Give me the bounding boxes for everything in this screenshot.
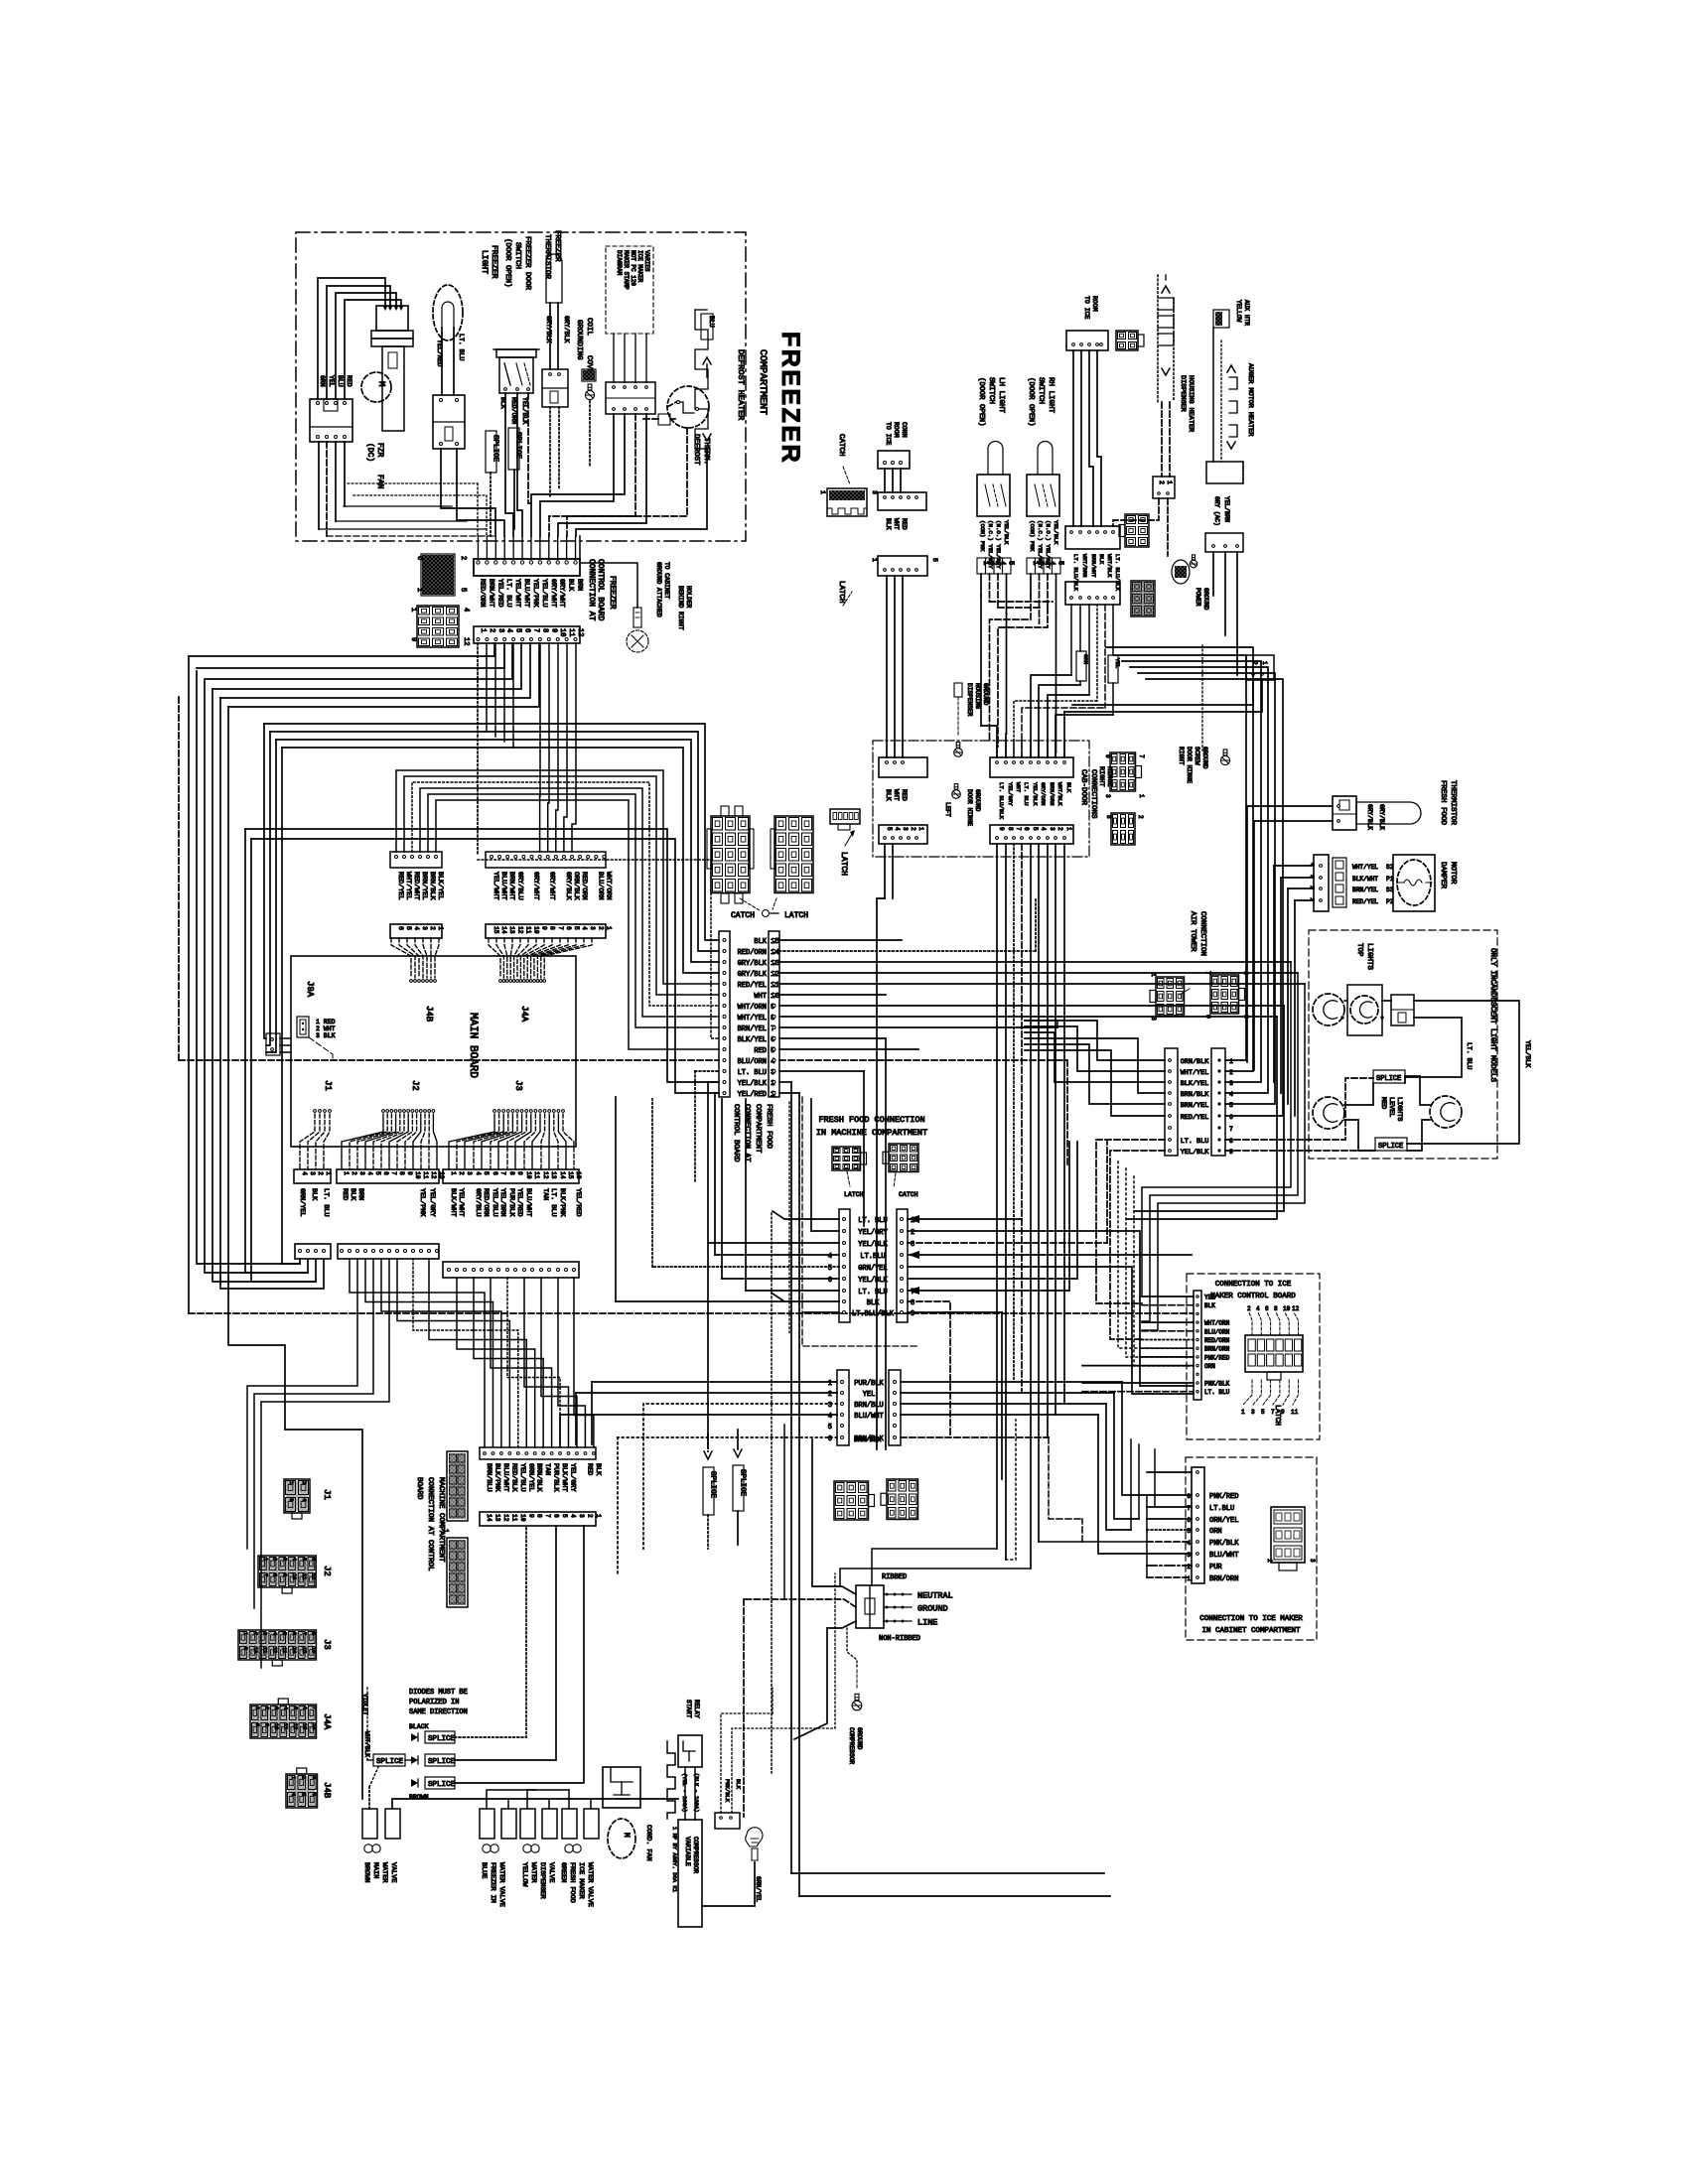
- freezer pins into 15-pin mid bar (staircase): [539, 643, 541, 852]
- svg-text:CONNECTION AT: CONNECTION AT: [743, 1104, 751, 1162]
- svg-text:9: 9: [1104, 754, 1111, 758]
- RH light switch switch box: [1027, 475, 1059, 516]
- ice maker control strip: [1194, 1291, 1201, 1400]
- svg-text:5: 5: [374, 1171, 381, 1175]
- hatched connector column 1: [447, 1451, 468, 1521]
- svg-text:2: 2: [252, 1632, 258, 1635]
- svg-text:J3: J3: [322, 1639, 332, 1650]
- svg-text:9: 9: [1229, 1149, 1233, 1156]
- svg-text:13: 13: [508, 926, 515, 934]
- freezer fan (DC) assembly: [376, 306, 408, 331]
- left bus wires from freezer connector (6): [189, 643, 494, 656]
- svg-text:8: 8: [1274, 1305, 1278, 1312]
- svg-text:GRY/WHT: GRY/WHT: [549, 579, 557, 608]
- svg-text:TOP: TOP: [1355, 943, 1363, 957]
- svg-text:5: 5: [514, 628, 522, 632]
- svg-text:3: 3: [578, 1514, 585, 1518]
- svg-text:J4B: J4B: [322, 1782, 332, 1799]
- svg-text:12: 12: [1292, 1305, 1300, 1312]
- svg-text:11: 11: [422, 1171, 429, 1179]
- central connector right wires: [908, 1218, 1022, 1220]
- svg-text:3: 3: [262, 1632, 268, 1635]
- svg-text:6: 6: [565, 926, 572, 930]
- freezer compartment dashed enclosure: [296, 232, 746, 541]
- svg-text:J1: J1: [322, 1489, 332, 1500]
- svg-text:3: 3: [273, 1706, 279, 1709]
- top light lamp 2 in box: [1347, 985, 1382, 1035]
- svg-text:RED/YEL: RED/YEL: [1352, 898, 1378, 905]
- defrost therm wire to bar: [567, 428, 687, 536]
- svg-text:11: 11: [567, 628, 575, 636]
- svg-text:YEL/BLK: YEL/BLK: [858, 1277, 888, 1285]
- svg-text:10: 10: [525, 1171, 532, 1179]
- svg-text:GRY/BLK: GRY/BLK: [738, 971, 768, 979]
- svg-text:LT.BLU: LT.BLU: [1209, 1505, 1234, 1513]
- svg-text:BRN/BLK: BRN/BLK: [428, 872, 436, 900]
- lower central left wires: [592, 1381, 837, 1383]
- 15-pin control board bar: [486, 852, 606, 868]
- svg-text:3: 3: [288, 1498, 295, 1501]
- svg-text:YEL/GRY: YEL/GRY: [1007, 782, 1014, 806]
- svg-text:J4B: J4B: [424, 1006, 434, 1023]
- svg-text:LATCH: LATCH: [1273, 1405, 1281, 1426]
- svg-text:3: 3: [1104, 794, 1111, 798]
- svg-text:DISPENSER: DISPENSER: [538, 1862, 546, 1899]
- svg-text:2: 2: [301, 1481, 308, 1484]
- svg-text:RH LIGHT: RH LIGHT: [1047, 377, 1055, 414]
- svg-text:HOUSING HEATER: HOUSING HEATER: [1187, 375, 1195, 432]
- svg-text:12: 12: [516, 926, 523, 934]
- svg-text:2: 2: [459, 556, 467, 560]
- svg-text:4: 4: [291, 1558, 297, 1561]
- cab door left bottom bar: [879, 825, 927, 844]
- svg-text:WHT: WHT: [1015, 782, 1022, 793]
- svg-text:LT. BLU: LT. BLU: [1181, 1138, 1209, 1146]
- machine compartment bar: [480, 1447, 596, 1459]
- svg-text:NON-RIBBED: NON-RIBBED: [879, 1635, 920, 1643]
- inverter connector stub: [715, 1813, 740, 1829]
- svg-text:5: 5: [483, 1171, 490, 1175]
- svg-text:1: 1: [1229, 1058, 1233, 1065]
- svg-text:9: 9: [1204, 1015, 1211, 1019]
- svg-text:10: 10: [252, 1647, 258, 1653]
- svg-text:MAIN: MAIN: [371, 1862, 379, 1878]
- ice maker control strip feeds: [1142, 1296, 1194, 1297]
- svg-text:7: 7: [301, 1632, 307, 1635]
- svg-text:11: 11: [1291, 1409, 1299, 1416]
- svg-text:BLK: BLK: [885, 789, 892, 801]
- svg-text:BLU/ORN: BLU/ORN: [738, 1058, 767, 1066]
- svg-text:SWITCH: SWITCH: [987, 377, 995, 404]
- auger 3-pin bar: [1205, 533, 1243, 552]
- svg-text:SPLICE: SPLICE: [376, 1758, 404, 1766]
- dispenser lower bar wires down: [1070, 605, 1072, 675]
- 6-pin numbers bar: [390, 924, 442, 938]
- svg-text:DISPENSER: DISPENSER: [1179, 375, 1187, 412]
- svg-text:10: 10: [1283, 1305, 1291, 1312]
- svg-text:THERMISTOR: THERMISTOR: [543, 234, 551, 280]
- hatched connector block 6-2: [421, 554, 455, 596]
- svg-text:BRN/ORN: BRN/ORN: [1049, 782, 1055, 806]
- svg-text:YEL/BLK: YEL/BLK: [1003, 520, 1010, 545]
- svg-text:3: 3: [466, 1171, 473, 1175]
- svg-text:SPLICE: SPLICE: [492, 435, 499, 463]
- svg-text:J1: J1: [323, 1080, 333, 1091]
- svg-text:BLU/WHT: BLU/WHT: [1209, 1552, 1238, 1560]
- freezer thermistor wires down wavy: [549, 407, 551, 496]
- svg-text:4: 4: [462, 608, 470, 612]
- svg-text:BLK/WHT: BLK/WHT: [449, 1188, 457, 1217]
- svg-text:RED/BLK: RED/BLK: [509, 1463, 517, 1492]
- ice maker control board dashed box: [1187, 1274, 1320, 1439]
- right trunk from center connector: [1142, 962, 1291, 1297]
- svg-text:WHT/ORN: WHT/ORN: [738, 1004, 767, 1012]
- svg-text:BRN/BLK: BRN/BLK: [1181, 1091, 1209, 1099]
- fresh food central connector right bar: [897, 1209, 908, 1322]
- svg-text:8: 8: [508, 1171, 515, 1175]
- mid-page twin bars left: [1165, 1048, 1178, 1156]
- svg-text:COMPARTMENT: COMPARTMENT: [754, 1104, 762, 1154]
- svg-text:7: 7: [499, 1171, 506, 1175]
- yellow marker box top right: [1213, 310, 1229, 328]
- svg-text:YEL/BLK: YEL/BLK: [1032, 782, 1039, 806]
- svg-text:4: 4: [301, 1171, 308, 1175]
- machine compartment splice chevrons: [704, 1451, 712, 1459]
- four wire bundle left drops: [264, 724, 266, 1038]
- splice (freezer harness) 2: [508, 428, 519, 470]
- svg-text:1: 1: [1261, 661, 1268, 665]
- svg-text:2: 2: [586, 1514, 593, 1518]
- svg-text:1: 1: [242, 1632, 248, 1635]
- svg-text:LT. BLU: LT. BLU: [858, 1289, 887, 1297]
- svg-text:PUR/BLK: PUR/BLK: [552, 1463, 560, 1492]
- svg-text:FAN: FAN: [375, 475, 384, 489]
- svg-text:2: 2: [317, 1171, 324, 1175]
- svg-text:RED/WHT: RED/WHT: [412, 872, 420, 900]
- svg-text:SPLICE: SPLICE: [709, 1471, 717, 1499]
- svg-text:RED/ORN: RED/ORN: [580, 872, 588, 900]
- svg-text:4: 4: [290, 1793, 296, 1796]
- svg-text:LT. BLU: LT. BLU: [738, 1069, 767, 1077]
- svg-text:YEL/BLU: YEL/BLU: [491, 1188, 498, 1217]
- svg-text:11: 11: [301, 1573, 307, 1579]
- svg-text:1: 1: [437, 926, 444, 930]
- compressor run capacitor box: [603, 1767, 640, 1808]
- svg-text:BLK: BLK: [310, 1188, 318, 1201]
- svg-text:1 RED: 1 RED: [316, 1019, 336, 1025]
- svg-text:SPLICE: SPLICE: [1376, 1075, 1401, 1083]
- svg-text:YEL/GRY: YEL/GRY: [569, 1463, 577, 1492]
- air tower grid B: [1210, 975, 1239, 1014]
- fresh food grid catch: [832, 1147, 861, 1170]
- svg-text:GRN/YEL: GRN/YEL: [298, 1188, 306, 1217]
- four wire bundle from freezer pins to right: [264, 724, 719, 940]
- svg-text:6: 6: [523, 628, 531, 632]
- diode splice 2: [411, 1756, 418, 1764]
- svg-text:SCREW: SCREW: [1194, 747, 1200, 765]
- svg-text:4: 4: [271, 1632, 277, 1635]
- svg-text:BLK/YEL: BLK/YEL: [436, 872, 444, 900]
- svg-text:13: 13: [302, 1723, 308, 1729]
- svg-text:LT. BLU: LT. BLU: [458, 334, 465, 360]
- left door hinge ground screw: [952, 784, 961, 799]
- svg-text:14: 14: [559, 1171, 566, 1179]
- svg-text:TO ICE: TO ICE: [1083, 296, 1090, 320]
- svg-text:8: 8: [1105, 815, 1112, 819]
- J3 standalone connector: [238, 1630, 316, 1660]
- cab door 9 wires upper jogs to dispenser bar: [981, 726, 997, 757]
- svg-text:PUR/BLK: PUR/BLK: [507, 1188, 515, 1217]
- wires from TO ICE ROOM bar down: [1072, 350, 1074, 526]
- freezer door switch wires down: [505, 393, 513, 536]
- ground lug attached to cabinet wire: [580, 536, 637, 608]
- splice outputs to right: [455, 1526, 526, 1737]
- svg-text:BLK/YEL: BLK/YEL: [738, 1036, 767, 1044]
- svg-text:1: 1: [262, 1558, 268, 1561]
- svg-text:ICE MAKER: ICE MAKER: [636, 250, 643, 283]
- svg-text:6: 6: [311, 1558, 317, 1561]
- svg-text:MAKER STAMP: MAKER STAMP: [623, 250, 630, 290]
- svg-text:2: 2: [272, 1558, 278, 1561]
- svg-text:YEL/BLK: YEL/BLK: [1053, 520, 1059, 545]
- svg-text:CONTROL BOARD: CONTROL BOARD: [596, 559, 605, 621]
- svg-text:2: 2: [458, 1171, 465, 1175]
- svg-text:10: 10: [558, 628, 566, 636]
- svg-text:FREEZER: FREEZER: [490, 245, 498, 279]
- freezer thermistor connector: [542, 369, 568, 407]
- svg-text:3: 3: [311, 1776, 317, 1779]
- svg-text:5: 5: [281, 1632, 287, 1635]
- svg-text:2: 2: [488, 628, 495, 632]
- svg-text:YEL: YEL: [1204, 1295, 1215, 1301]
- svg-text:YEL: YEL: [328, 375, 335, 387]
- svg-text:1: 1: [1138, 794, 1145, 798]
- water dispenser valve solenoids (yellow): [520, 1809, 535, 1839]
- svg-text:CONNECTION: CONNECTION: [1198, 911, 1206, 956]
- auger motor heater zigzag: [1212, 328, 1214, 462]
- svg-text:LATCH: LATCH: [837, 581, 845, 604]
- svg-text:1: 1: [450, 1171, 457, 1175]
- svg-text:BRN/BLK: BRN/BLK: [854, 1436, 881, 1443]
- svg-text:YEL/BLK: YEL/BLK: [1181, 1149, 1209, 1157]
- svg-text:10: 10: [519, 1514, 526, 1522]
- svg-text:6: 6: [311, 1793, 317, 1796]
- compressor ground screw: [852, 1694, 862, 1710]
- svg-text:GRY/BLK: GRY/BLK: [1366, 804, 1373, 830]
- svg-text:2: 2: [910, 827, 916, 831]
- svg-text:COMPRESSOR: COMPRESSOR: [848, 1727, 855, 1764]
- svg-text:NOT PC 120: NOT PC 120: [630, 250, 636, 286]
- freezer pins down to bundle corners: [477, 643, 479, 854]
- svg-text:6: 6: [1187, 1517, 1191, 1524]
- svg-text:CONN: CONN: [901, 422, 908, 438]
- svg-text:3: 3: [421, 926, 428, 930]
- svg-text:RED: RED: [901, 518, 908, 530]
- J9A wires to left edge: [280, 1037, 291, 1039]
- svg-text:LINE: LINE: [917, 1618, 937, 1628]
- latch5 wires down to cab door box: [886, 576, 888, 757]
- svg-text:GROUNDING: GROUNDING: [575, 320, 583, 360]
- svg-text:FREEZER: FREEZER: [608, 576, 617, 610]
- freezer door switch plate: [493, 348, 539, 350]
- svg-text:YEL/GRY: YEL/GRY: [858, 1229, 888, 1237]
- J3 pigtail bar: [443, 1169, 579, 1183]
- svg-text:2 WHT: 2 WHT: [316, 1025, 336, 1032]
- main board J4A top pins fan: [489, 938, 500, 978]
- svg-text:BRN/ORN: BRN/ORN: [1204, 1346, 1230, 1353]
- long dashed run to right side: [189, 1312, 1194, 1314]
- ice maker cabinet grid block: [1271, 1507, 1305, 1563]
- svg-text:BRN/YEL: BRN/YEL: [738, 1025, 767, 1033]
- freezer box bottom harness wires: [344, 505, 452, 507]
- svg-text:DIAGRAM: DIAGRAM: [616, 250, 623, 276]
- 15-pin left side feeder wires: [179, 1059, 719, 1061]
- svg-text:9: 9: [998, 827, 1005, 831]
- svg-text:RED: RED: [585, 1463, 593, 1475]
- svg-text:HOUSING: HOUSING: [974, 683, 981, 709]
- dispenser heater wires to 2-pin box: [1161, 402, 1163, 477]
- svg-text:PUR: PUR: [1209, 1564, 1222, 1571]
- svg-text:YELLOW: YELLOW: [520, 1862, 528, 1887]
- svg-text:YEL/BLK: YEL/BLK: [858, 1241, 888, 1249]
- svg-text:2: 2: [429, 926, 436, 930]
- svg-text:TO CABINET: TO CABINET: [663, 562, 670, 599]
- svg-text:FZR: FZR: [375, 443, 384, 458]
- dotted links to ice strip feeds: [1118, 1161, 1194, 1348]
- svg-text:HOLDER: HOLDER: [685, 586, 692, 609]
- med level lamp right: [1430, 1096, 1462, 1128]
- svg-text:5: 5: [301, 1793, 307, 1796]
- svg-text:7: 7: [262, 1573, 268, 1576]
- svg-text:6: 6: [1023, 827, 1030, 831]
- svg-text:YEL/PNK: YEL/PNK: [531, 579, 539, 608]
- svg-text:ORN/BLK: ORN/BLK: [572, 872, 580, 900]
- svg-text:FREEZER DOOR: FREEZER DOOR: [523, 236, 531, 291]
- svg-text:1: 1: [441, 1529, 449, 1533]
- svg-text:BLACK: BLACK: [409, 1723, 429, 1730]
- svg-text:12: 12: [271, 1647, 277, 1653]
- relay to inverter wires: [684, 1767, 686, 1820]
- svg-text:1: 1: [254, 1706, 260, 1709]
- svg-text:1: 1: [409, 608, 417, 612]
- svg-text:YEL/PNK: YEL/PNK: [418, 1188, 426, 1217]
- freezer light bulb: [433, 285, 463, 341]
- svg-text:YEL/RED: YEL/RED: [738, 1091, 767, 1099]
- fresh food thermistor bulb: [1356, 802, 1421, 824]
- twin bars right wires: [1114, 655, 1246, 1060]
- svg-text:7: 7: [1187, 1505, 1191, 1512]
- svg-text:GRN/YEL: GRN/YEL: [858, 1265, 887, 1273]
- svg-text:RED/ORN: RED/ORN: [738, 949, 767, 957]
- svg-text:GRN/YEL: GRN/YEL: [526, 1463, 534, 1492]
- svg-text:TAN: TAN: [543, 1463, 551, 1475]
- svg-text:WATER: WATER: [529, 1862, 537, 1882]
- svg-text:6: 6: [492, 1171, 498, 1175]
- svg-text:BLK: BLK: [885, 518, 892, 530]
- J2 standalone connector: [258, 1556, 316, 1587]
- svg-text:WATER VALVE: WATER VALVE: [586, 1862, 594, 1907]
- top right 2-pin box: [1246, 655, 1274, 680]
- svg-text:WHT/BLK: WHT/BLK: [1106, 554, 1113, 578]
- ice maker control block connector: [1245, 1335, 1303, 1372]
- svg-text:COMPARTMENT: COMPARTMENT: [757, 349, 768, 415]
- svg-text:4: 4: [1256, 1305, 1260, 1312]
- svg-text:J4A: J4A: [322, 1713, 332, 1730]
- catch connector grid 3x5: [711, 816, 750, 893]
- lower central connector right bar: [889, 1370, 901, 1445]
- svg-text:GRY/BLU: GRY/BLU: [474, 1188, 482, 1217]
- svg-text:RIGHT: RIGHT: [1178, 747, 1185, 765]
- svg-text:5: 5: [405, 926, 412, 930]
- svg-text:11: 11: [510, 1514, 517, 1522]
- svg-text:VALVE: VALVE: [547, 1862, 555, 1882]
- svg-text:LT.BLU: LT.BLU: [860, 1253, 885, 1261]
- svg-text:2: 2: [1056, 827, 1063, 831]
- drier zigzag: [667, 1741, 675, 1819]
- svg-text:CATCH: CATCH: [731, 911, 755, 920]
- inverter dotted control wires: [721, 1713, 773, 1813]
- svg-text:SPLICE: SPLICE: [428, 1781, 456, 1789]
- svg-text:YEL/BLK: YEL/BLK: [738, 1080, 768, 1088]
- svg-text:BLUE: BLUE: [480, 1862, 488, 1878]
- svg-text:8: 8: [311, 1632, 317, 1635]
- svg-text:12: 12: [462, 637, 470, 645]
- svg-text:3: 3: [871, 490, 878, 494]
- svg-text:WHT/BRN: WHT/BRN: [1081, 554, 1088, 578]
- svg-text:5: 5: [828, 1424, 832, 1432]
- svg-text:YEL/WHT: YEL/WHT: [513, 579, 521, 608]
- svg-text:4: 4: [505, 628, 513, 632]
- svg-text:CAB-DOOR: CAB-DOOR: [1079, 769, 1087, 806]
- svg-text:1: 1: [325, 1171, 332, 1175]
- svg-text:GRY/BLK: GRY/BLK: [563, 316, 570, 342]
- svg-text:BLK: BLK: [1065, 782, 1072, 793]
- svg-text:4: 4: [366, 1171, 373, 1175]
- freezer connector bar (top): [474, 559, 580, 576]
- svg-text:IN CABINET COMPARTMENT: IN CABINET COMPARTMENT: [1201, 1627, 1301, 1635]
- svg-text:BLK/WHT: BLK/WHT: [1352, 876, 1378, 883]
- svg-text:6: 6: [1229, 1114, 1233, 1121]
- J1 standalone connector: [284, 1479, 310, 1513]
- svg-text:5: 5: [292, 1706, 298, 1709]
- svg-text:7: 7: [311, 1706, 317, 1709]
- icebox 3-pin wires: [884, 469, 886, 492]
- svg-text:3: 3: [1049, 827, 1055, 831]
- svg-text:LT. BLU: LT. BLU: [322, 1188, 330, 1217]
- inline splice boxes on dispenser wires: [1076, 651, 1086, 681]
- svg-text:AUGER MOTOR HEATER: AUGER MOTOR HEATER: [1246, 363, 1254, 436]
- svg-text:1: 1: [871, 558, 878, 562]
- svg-text:12: 12: [430, 1171, 437, 1179]
- svg-text:5: 5: [1261, 1409, 1265, 1416]
- svg-text:BLU/WHT: BLU/WHT: [854, 1413, 883, 1421]
- freezer door switch contacts: [499, 357, 533, 393]
- freezer light switch: [433, 395, 465, 449]
- svg-text:2: 2: [1187, 1564, 1191, 1570]
- bulb wire: [702, 1862, 755, 1906]
- ice maker dashed box (varies with model): [606, 246, 653, 334]
- svg-text:BRN/BLK: BRN/BLK: [535, 1463, 543, 1492]
- svg-text:BLU/ORN: BLU/ORN: [1204, 1328, 1230, 1335]
- dotted drop to right hinge: [1201, 645, 1203, 751]
- svg-text:TAN: TAN: [541, 1188, 549, 1200]
- fresh food thermistor feed wires: [1247, 805, 1333, 807]
- svg-text:2: 2: [301, 1776, 307, 1779]
- svg-text:BLK/PNK: BLK/PNK: [558, 1188, 566, 1217]
- svg-text:GROUND: GROUND: [856, 1727, 863, 1750]
- svg-text:CONNECTION TO ICE MAKER: CONNECTION TO ICE MAKER: [1199, 1615, 1303, 1623]
- svg-text:PNK/BLK: PNK/BLK: [724, 1779, 731, 1803]
